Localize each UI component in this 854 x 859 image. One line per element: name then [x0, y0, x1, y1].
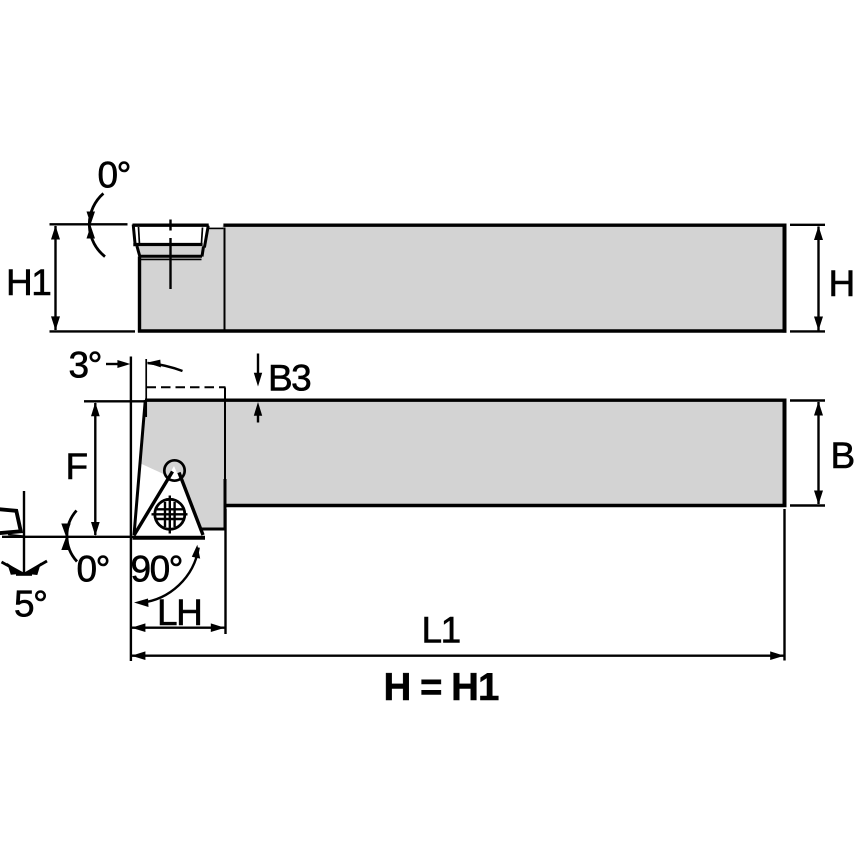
bar top edge plan view	[145, 399, 787, 402]
toolholder body top view gray fill	[140, 226, 785, 332]
pocket floor line	[141, 258, 202, 260]
H arrow down	[814, 317, 823, 331]
shank bottom edge plan view	[224, 504, 787, 507]
B extension line bottom	[790, 504, 825, 506]
clamp left edge	[133, 225, 135, 246]
5 deg vertical line	[23, 491, 25, 574]
L1 right extension line	[783, 509, 785, 661]
svg-text:H1: H1	[6, 262, 50, 303]
F dimension line	[94, 403, 96, 535]
3 deg leader arrow	[106, 363, 122, 365]
L1 dimension line	[131, 655, 784, 657]
B3 lower arrow	[257, 414, 259, 423]
H extension line bottom right	[790, 330, 825, 332]
shim gray fill top view	[137, 246, 204, 259]
head left edge top view	[138, 257, 141, 333]
insert triangle bottom edge	[133, 536, 206, 540]
F arrow up	[91, 402, 100, 416]
90 deg arc	[140, 548, 198, 603]
screw crosshair horizontal	[152, 513, 188, 515]
nose radius circle	[164, 460, 184, 480]
pocket step vertical	[207, 226, 210, 230]
svg-text:5°: 5°	[14, 584, 46, 625]
head bottom edge plan view	[201, 528, 227, 531]
clamp right edge	[204, 226, 208, 248]
insert inner right line	[202, 228, 203, 244]
L1 arrow right	[770, 651, 784, 660]
svg-text:LH: LH	[157, 592, 201, 633]
bar top edge (insert region)	[133, 223, 209, 226]
B arrow up	[814, 402, 823, 416]
svg-text:90°: 90°	[131, 549, 182, 590]
H extension line top right	[790, 224, 825, 226]
H dimension line	[817, 227, 819, 331]
H arrow up	[814, 226, 823, 240]
screw inner pattern	[164, 502, 166, 527]
insert inner left line	[138, 227, 141, 243]
insert triangle left edge	[134, 472, 173, 536]
LH dimension line	[131, 627, 224, 629]
L1 arrow left	[131, 651, 145, 660]
H1 extension line top	[50, 223, 128, 225]
insert bottom edge top view	[133, 243, 202, 246]
svg-text:3°: 3°	[69, 345, 101, 386]
LH arrow right	[211, 623, 225, 632]
B extension line top	[790, 399, 825, 401]
pocket step line	[208, 227, 224, 229]
H1 arrow up	[51, 226, 60, 240]
svg-text:H = H1: H = H1	[384, 666, 499, 709]
left hand symbol	[0, 509, 21, 534]
insert tip reference line	[2, 536, 133, 538]
0 deg arc top	[89, 193, 105, 256]
F arrow down	[91, 522, 100, 536]
insert triangle white fill	[133, 466, 205, 538]
LH right extension line	[224, 509, 226, 634]
0 deg arc arrows top	[87, 212, 96, 225]
toolholder body plan view gray fill	[135, 400, 785, 530]
H1 arrow down	[51, 316, 60, 330]
0 deg arc arrows bottom	[61, 524, 70, 537]
head slanted left edge	[134, 400, 145, 535]
LH arrow left	[131, 623, 145, 632]
bar top edge (shank)	[223, 223, 786, 226]
dashed reference line	[147, 386, 226, 388]
bar right edge	[783, 224, 787, 333]
head-shank joint line top view	[224, 228, 226, 330]
insert triangle right edge	[179, 473, 203, 536]
head-shank joint line plan view	[224, 388, 226, 505]
B3 upper arrow	[257, 354, 259, 375]
shim bottom edge	[139, 255, 203, 258]
svg-text:0°: 0°	[98, 154, 130, 195]
shim left edge	[137, 246, 140, 256]
3 deg extension line B	[145, 359, 147, 417]
svg-text:L1: L1	[422, 610, 460, 651]
B dimension line	[817, 402, 819, 504]
bar bottom edge	[138, 329, 787, 332]
screw circle	[155, 499, 185, 529]
svg-text:B3: B3	[268, 358, 310, 399]
insert white fill top view	[133, 224, 209, 247]
pocket floor white wedge	[134, 463, 170, 536]
svg-text:B: B	[831, 435, 854, 476]
screw centerline top view	[169, 220, 171, 231]
bar right edge plan view	[783, 399, 787, 507]
svg-text:0°: 0°	[77, 549, 109, 590]
0 deg arc bottom	[67, 511, 77, 562]
svg-text:H: H	[829, 263, 854, 304]
H1 extension line bottom	[50, 330, 136, 332]
H1 dimension line	[54, 226, 56, 330]
3 deg / LH / L1 left extension line	[130, 357, 132, 662]
screw crosshair vertical	[169, 496, 171, 534]
svg-text:F: F	[66, 446, 88, 487]
F extension line	[84, 400, 144, 402]
3 deg arc	[148, 363, 183, 371]
shim right edge	[202, 247, 204, 257]
B arrow down	[814, 491, 823, 505]
head step vertical plan view	[224, 479, 227, 531]
5 deg angle arrows	[2, 562, 25, 574]
